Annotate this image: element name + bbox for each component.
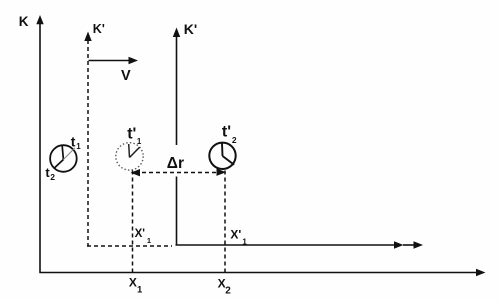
wire dashed vertical at x2 position xyxy=(224,171,226,273)
svg-text:1: 1 xyxy=(147,236,151,245)
axis x bottom xyxy=(39,269,485,276)
axis K vertical xyxy=(36,15,43,273)
svg-text:t: t xyxy=(71,133,76,149)
axis K' solid (moved frame) xyxy=(173,28,180,246)
svg-text:1: 1 xyxy=(137,285,143,296)
wire dashed horizontal x' (old frame) xyxy=(87,245,172,247)
arrow delta-r dashed double-headed xyxy=(131,169,227,177)
clock t1/t2 (frame K) xyxy=(50,145,77,172)
svg-text:t': t' xyxy=(127,125,136,142)
clock t'2 (frame K' moved) xyxy=(209,143,235,169)
arrow V velocity xyxy=(89,57,139,64)
svg-text:K': K' xyxy=(184,21,197,37)
svg-text:X: X xyxy=(129,276,137,290)
svg-text:Δr: Δr xyxy=(167,155,184,172)
axis x' solid with double arrowheads xyxy=(176,241,424,248)
svg-text:t': t' xyxy=(222,124,231,141)
svg-text:1: 1 xyxy=(137,137,142,146)
axis K' dashed (original frame position) xyxy=(84,32,91,247)
wire dashed vertical at x1 position xyxy=(132,171,134,273)
svg-text:K: K xyxy=(19,14,29,29)
svg-text:2: 2 xyxy=(50,172,55,182)
svg-text:1: 1 xyxy=(242,237,247,246)
svg-text:K': K' xyxy=(93,22,105,36)
svg-text:1: 1 xyxy=(76,142,81,151)
svg-text:2: 2 xyxy=(232,135,237,145)
label delta-r with white backing over K' axis xyxy=(165,145,184,177)
clock t'1 (ghost, dotted) xyxy=(116,143,143,170)
svg-text:X': X' xyxy=(135,228,146,240)
svg-text:X': X' xyxy=(230,227,241,241)
svg-text:2: 2 xyxy=(225,286,231,297)
svg-text:V: V xyxy=(121,68,131,84)
